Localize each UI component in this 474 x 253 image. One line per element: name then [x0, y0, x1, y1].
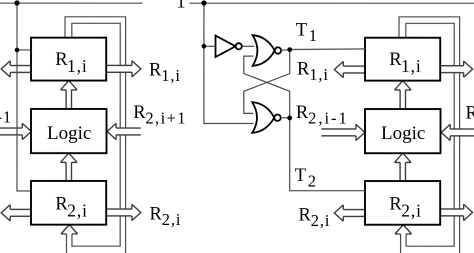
- wire: inverter output to NOR1 upper input: [242, 45, 255, 47]
- wire: top rail left segment: [0, 2, 142, 4]
- svg-text:R: R: [298, 206, 311, 226]
- svg-text:R: R: [133, 103, 146, 123]
- wire: inverter input: [204, 45, 216, 47]
- NOR gate U3 (bottom): [252, 102, 281, 133]
- svg-text:1,i: 1,i: [161, 66, 181, 85]
- bus arrow: R2,i-1 input into left Logic (from left edge): [0, 123, 31, 139]
- wire: NOR2 output to node T2: [281, 117, 290, 119]
- bus arrow: load input up into R2,i bottom of right cell: [395, 225, 412, 234]
- register R1,i box of left cell: [31, 38, 106, 81]
- svg-text:1: 1: [309, 26, 318, 45]
- bus arrow: load input up into R2,i bottom of left cell: [61, 225, 78, 234]
- bus arrow: R2,i-1 input into right Logic (stub from left): [321, 124, 365, 140]
- label R2,i input to right cell: [298, 206, 330, 231]
- svg-text:2,i: 2,i: [311, 211, 331, 230]
- logic block box of left cell: [31, 109, 107, 153]
- logic block box of right cell: [365, 109, 441, 153]
- bus arrow: Logic output up into R1,i register of right cell: [395, 81, 412, 109]
- label R2,i-1 input to right Logic: [296, 103, 349, 128]
- wire: branch from control line into R1,i side: [17, 49, 32, 51]
- svg-text:2,i+1: 2,i+1: [145, 109, 187, 128]
- svg-text:-1: -1: [0, 107, 12, 126]
- bus arrow: R2,i output of left cell to the right: [106, 204, 141, 220]
- junction dot on top rail at latch input: [201, 0, 206, 5]
- label R1,i input to right cell: [297, 60, 329, 85]
- bus arrow: R2,i output up into Logic of left cell: [60, 153, 77, 181]
- wire: NOR1 lower input cross-coupling from T2: [244, 56, 290, 118]
- label T2 at latch lower output: [295, 166, 317, 191]
- inverter U1: [216, 36, 242, 57]
- wire: node T1 to right cell R1 input: [290, 48, 366, 51]
- svg-text:1: 1: [176, 0, 185, 12]
- label R2,i+1 on left Logic right input: [133, 103, 187, 128]
- label T1 at latch upper output: [296, 21, 318, 46]
- bus arrow: Logic output up into R1,i register of left cell: [61, 81, 78, 109]
- svg-text:R: R: [149, 60, 162, 80]
- wire: bottom input stub of right cell R2 load arrow (runs off bottom edge): [400, 234, 402, 253]
- wire: control line from top rail down left cell, into R2,i side: [17, 3, 32, 191]
- junction dot at inverter input branch: [202, 44, 207, 49]
- svg-text:1,i: 1,i: [67, 56, 88, 76]
- label R1,i inside top register of left cell: [55, 50, 87, 76]
- wire: NOR2 upper input cross-coupling from T1: [244, 50, 290, 114]
- svg-text:2: 2: [308, 172, 317, 191]
- svg-text:2,i: 2,i: [401, 201, 422, 221]
- label R2,i inside bottom register of right cell: [389, 194, 421, 220]
- label R2,i on left cell right output: [149, 204, 181, 229]
- svg-text:R: R: [297, 60, 310, 80]
- svg-text:T: T: [296, 21, 307, 41]
- junction dot node T2: [287, 116, 292, 121]
- junction dot node T1: [287, 47, 292, 52]
- svg-text:1,i: 1,i: [401, 56, 422, 76]
- svg-text:2,i-1: 2,i-1: [308, 109, 349, 128]
- wire: NOR1 output to node T1: [281, 49, 290, 52]
- wire: top rail right segment: [189, 2, 474, 4]
- bus arrow: R2,i+1 input into left Logic (stub from right): [107, 123, 141, 139]
- svg-text:R: R: [296, 103, 309, 123]
- wire: outer feedback loop of right cell (R1 top to bottom edge): [399, 17, 460, 253]
- junction dot on control line at R1 branch: [15, 48, 20, 53]
- junction dot on top rail at left control line: [14, 0, 19, 5]
- bus arrow: R1,i output of left cell to left neighbour: [1, 61, 31, 77]
- label R2,i inside bottom register of left cell: [55, 194, 87, 220]
- register R1,i box of right cell: [365, 38, 440, 81]
- svg-text:Logic: Logic: [47, 123, 91, 144]
- svg-text:2,i: 2,i: [67, 200, 88, 220]
- bus arrow: R2,i output of left cell to left neighbour: [1, 205, 31, 221]
- svg-text:T: T: [295, 166, 306, 186]
- bus arrow: R2,i output of right cell to the left: [334, 205, 365, 221]
- bus arrow: R2,i output up into Logic of right cell: [394, 153, 411, 181]
- label R1,i on left cell right output: [149, 60, 181, 85]
- NOR gate U2 (top): [253, 35, 282, 66]
- register R2,i box of right cell: [365, 181, 440, 225]
- svg-text:1,i: 1,i: [309, 65, 329, 84]
- svg-text:Logic: Logic: [381, 123, 425, 144]
- bus arrow: R2,i output of right cell to right edge: [440, 204, 473, 220]
- wire: inner feedback loop of left cell (R1 top around to R2 bottom arrow): [72, 23, 120, 246]
- label R1,i inside top register of right cell: [389, 50, 421, 76]
- wire: latch input from top rail down to NOR2 lower input: [204, 3, 254, 124]
- bus arrow: R1,i output of right cell to the left: [334, 61, 365, 77]
- wire: outer feedback loop of left cell (R1 top to bottom edge): [65, 17, 126, 253]
- svg-text:2,i: 2,i: [162, 210, 182, 229]
- wire: bottom input stub of left cell R2 load arrow (runs off bottom edge): [65, 234, 67, 253]
- bus arrow: R2,i+1 input into right Logic (from right edge): [441, 124, 474, 140]
- bus arrow: R1,i output of right cell to right edge: [440, 61, 473, 77]
- register R2,i box of left cell: [31, 181, 106, 225]
- wire: node T2 down and into right cell R2 input: [290, 118, 366, 191]
- wire: inner feedback loop of right cell (R1 top around to R2 bottom arrow): [406, 23, 454, 246]
- bus arrow: R1,i output of left cell to the right: [106, 61, 141, 77]
- svg-text:R: R: [466, 103, 474, 123]
- svg-text:R: R: [149, 204, 162, 224]
